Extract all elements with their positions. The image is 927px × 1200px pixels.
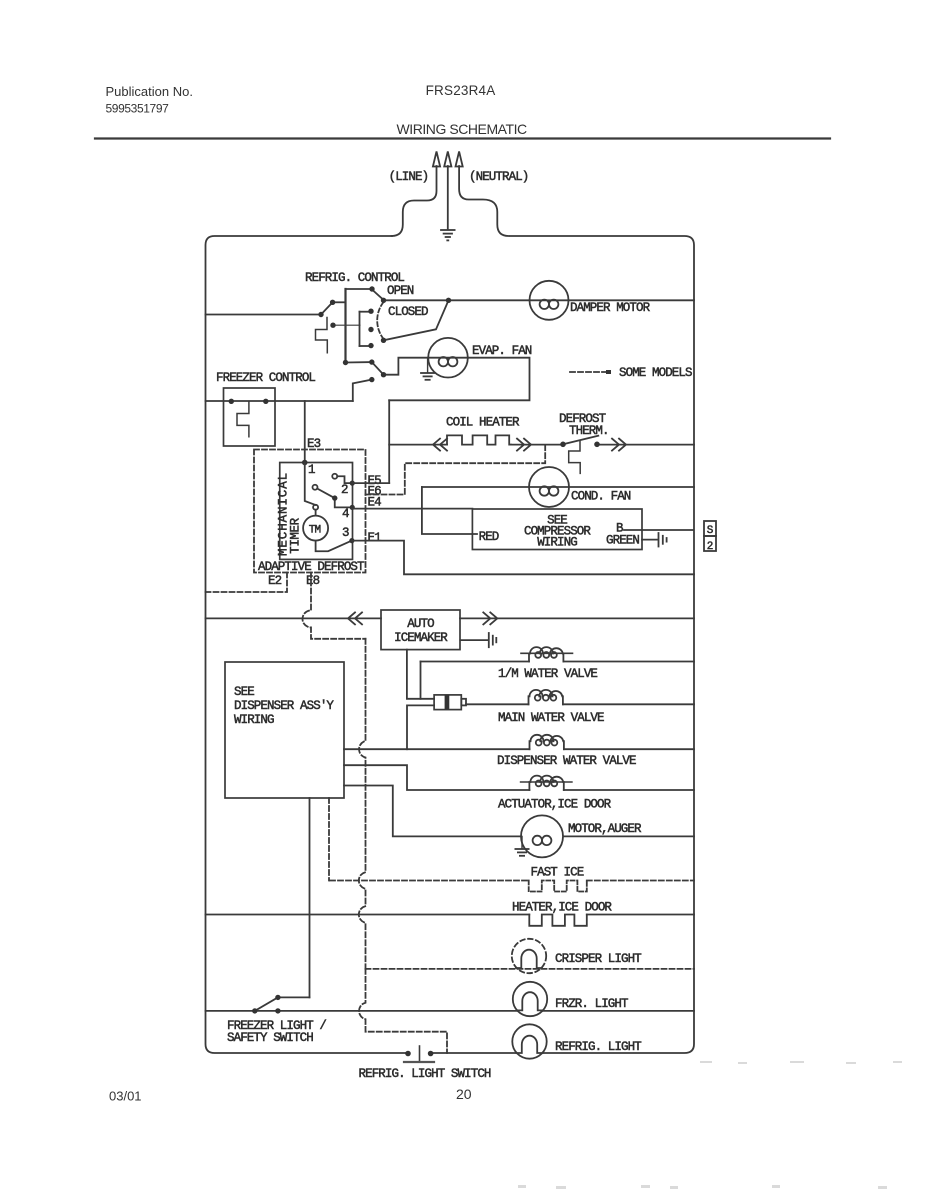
svg-text:CLOSED: CLOSED xyxy=(388,305,428,319)
svg-text:20: 20 xyxy=(456,1086,472,1102)
svg-text:SOME MODELS: SOME MODELS xyxy=(619,366,692,380)
svg-text:ICEMAKER: ICEMAKER xyxy=(394,631,448,645)
svg-text:OPEN: OPEN xyxy=(387,284,414,298)
svg-text:ACTUATOR,ICE DOOR: ACTUATOR,ICE DOOR xyxy=(498,798,612,812)
svg-text:REFRIG. LIGHT SWITCH: REFRIG. LIGHT SWITCH xyxy=(359,1067,491,1081)
svg-text:GREEN: GREEN xyxy=(606,534,639,548)
svg-text:FAST ICE: FAST ICE xyxy=(531,866,584,880)
svg-text:SAFETY SWITCH: SAFETY SWITCH xyxy=(227,1031,313,1045)
svg-text:COND. FAN: COND. FAN xyxy=(571,490,631,504)
svg-text:CRISPER LIGHT: CRISPER LIGHT xyxy=(555,952,642,966)
svg-text:1/M WATER VALVE: 1/M WATER VALVE xyxy=(498,667,597,681)
svg-text:EVAP. FAN: EVAP. FAN xyxy=(472,344,532,358)
svg-text:2: 2 xyxy=(707,541,713,553)
svg-text:REFRIG. LIGHT: REFRIG. LIGHT xyxy=(555,1040,642,1054)
svg-text:SEE: SEE xyxy=(234,685,254,699)
svg-text:(NEUTRAL): (NEUTRAL) xyxy=(469,170,528,184)
svg-text:MAIN WATER VALVE: MAIN WATER VALVE xyxy=(498,711,604,725)
svg-text:E8: E8 xyxy=(306,574,320,588)
svg-text:03/01: 03/01 xyxy=(109,1089,142,1104)
svg-text:FRZR. LIGHT: FRZR. LIGHT xyxy=(555,997,629,1011)
svg-text:HEATER,ICE DOOR: HEATER,ICE DOOR xyxy=(512,901,612,915)
svg-text:WIRING: WIRING xyxy=(537,536,577,550)
svg-text:1: 1 xyxy=(308,463,315,477)
svg-text:RED: RED xyxy=(479,530,499,544)
svg-text:E2: E2 xyxy=(268,574,282,588)
svg-text:5995351797: 5995351797 xyxy=(106,102,170,116)
svg-text:3: 3 xyxy=(342,526,349,540)
svg-text:WIRING SCHEMATIC: WIRING SCHEMATIC xyxy=(397,121,528,137)
svg-text:AUTO: AUTO xyxy=(407,617,434,631)
svg-text:REFRIG. CONTROL: REFRIG. CONTROL xyxy=(305,271,404,285)
svg-text:(LINE): (LINE) xyxy=(389,170,429,184)
svg-text:COIL HEATER: COIL HEATER xyxy=(446,416,520,430)
svg-text:2: 2 xyxy=(341,483,348,497)
svg-text:WIRING: WIRING xyxy=(234,713,274,727)
svg-text:FREEZER CONTROL: FREEZER CONTROL xyxy=(216,371,315,385)
svg-text:E4: E4 xyxy=(368,496,382,510)
svg-text:TIMER: TIMER xyxy=(289,517,303,553)
svg-text:4: 4 xyxy=(342,507,349,521)
svg-text:THERM.: THERM. xyxy=(569,424,609,438)
svg-text:DISPENSER WATER VALVE: DISPENSER WATER VALVE xyxy=(497,754,636,768)
svg-text:E1: E1 xyxy=(368,531,382,545)
svg-text:MOTOR,AUGER: MOTOR,AUGER xyxy=(568,822,642,836)
svg-text:Publication No.: Publication No. xyxy=(106,84,193,99)
svg-text:DISPENSER ASS'Y: DISPENSER ASS'Y xyxy=(234,699,334,713)
svg-text:FRS23R4A: FRS23R4A xyxy=(426,83,496,98)
svg-text:DAMPER MOTOR: DAMPER MOTOR xyxy=(570,301,651,315)
svg-text:TM: TM xyxy=(309,525,321,537)
